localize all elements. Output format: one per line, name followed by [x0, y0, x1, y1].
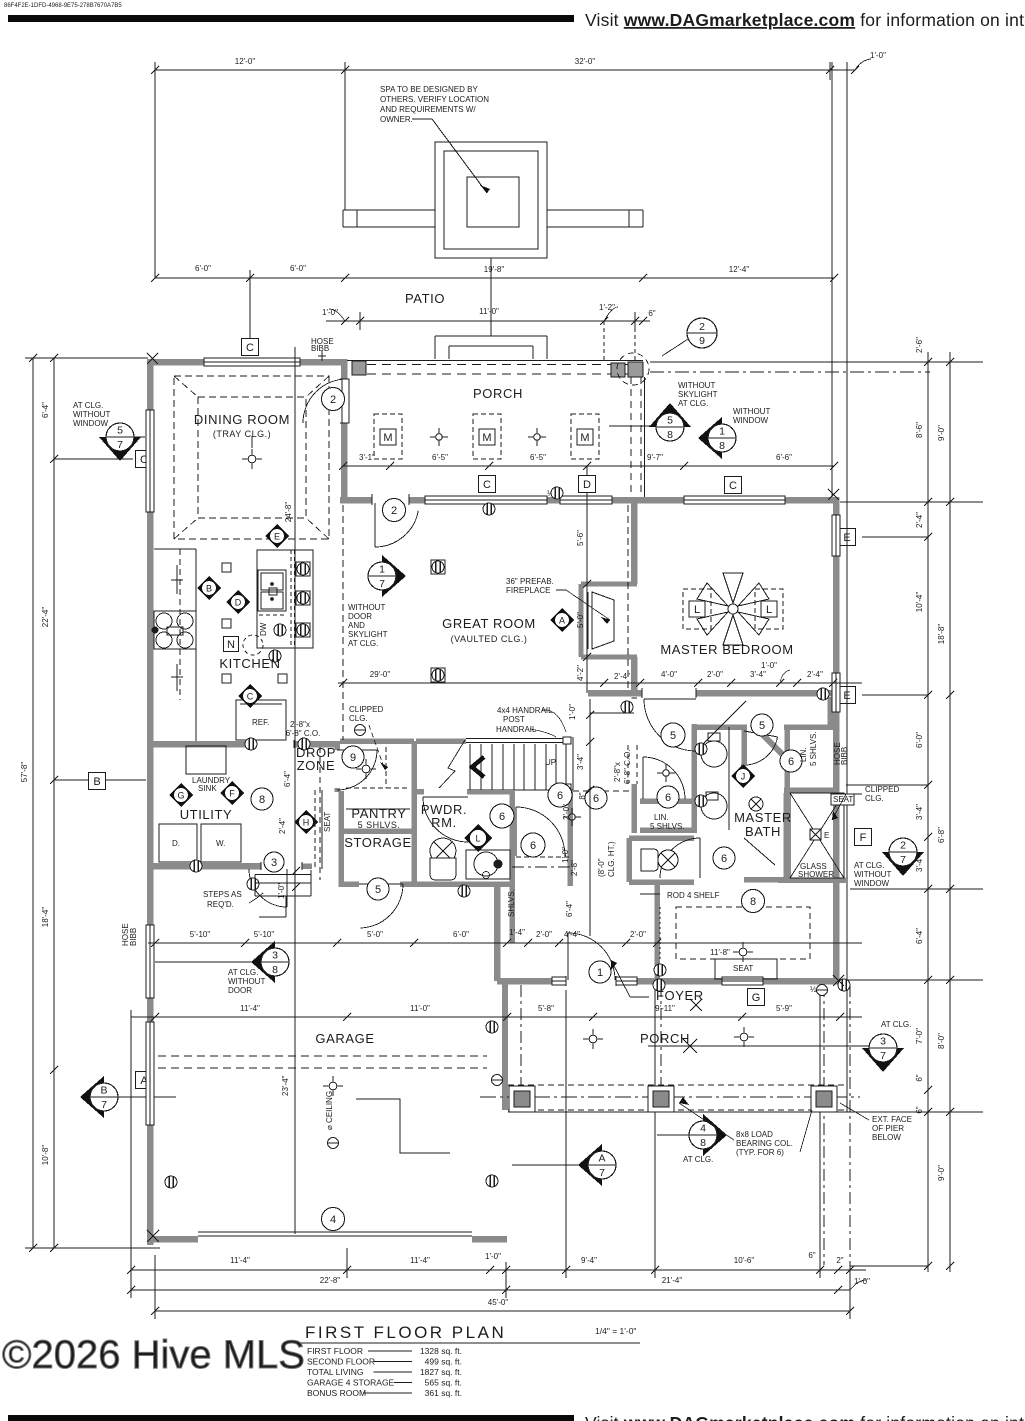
svg-text:DOOR: DOOR [228, 986, 252, 995]
svg-text:6'-4": 6'-4" [915, 928, 924, 944]
svg-text:3'-4": 3'-4" [576, 754, 585, 770]
svg-text:D: D [235, 598, 242, 608]
master linen closet [784, 724, 834, 730]
svg-text:CLIPPED: CLIPPED [865, 785, 899, 794]
windows foyer front [552, 977, 575, 986]
door 2 great room [374, 503, 376, 547]
kitchen symbols [197, 576, 221, 600]
M box dashed master [571, 414, 599, 459]
svg-text:2: 2 [330, 394, 336, 406]
stair side rails [510, 789, 573, 791]
window dining top C [204, 358, 300, 367]
svg-text:11'-4": 11'-4" [230, 1256, 250, 1265]
svg-text:2'-4": 2'-4" [807, 670, 823, 679]
dining top wall [147, 359, 347, 366]
door utility [337, 749, 377, 751]
clipped clg dashed pwdr [319, 747, 321, 880]
dining fan [251, 436, 253, 448]
svg-text:4'-4": 4'-4" [564, 930, 580, 939]
svg-text:WINDOW: WINDOW [73, 419, 109, 428]
svg-text:12'-4": 12'-4" [729, 265, 750, 274]
utility door opening [334, 750, 341, 788]
svg-text:Visit www.DAGmarketplace.com f: Visit www.DAGmarketplace.com for informa… [585, 1413, 1025, 1421]
pwdr walls [416, 789, 510, 795]
svg-text:1'-0": 1'-0" [568, 704, 577, 720]
svg-text:11'-0": 11'-0" [410, 1004, 430, 1013]
svg-text:10'-8": 10'-8" [41, 1145, 50, 1166]
foyer closet walls [509, 791, 515, 943]
seat box [715, 959, 777, 979]
svg-text:M: M [580, 432, 589, 444]
svg-text:19'-8": 19'-8" [484, 265, 505, 274]
svg-text:2'-4": 2'-4" [614, 672, 630, 681]
svg-text:2'-8": 2'-8" [570, 860, 579, 876]
window utility left [146, 925, 155, 998]
corner marks [147, 1230, 159, 1242]
svg-text:BIBB: BIBB [311, 344, 329, 353]
svg-text:HANDRAIL: HANDRAIL [496, 725, 537, 734]
svg-text:2'-8"x: 2'-8"x [613, 762, 622, 782]
great room top wall [340, 497, 839, 504]
svg-text:BIBB: BIBB [129, 928, 138, 946]
svg-text:C: C [729, 480, 737, 492]
svg-text:5: 5 [117, 425, 123, 437]
closet door [515, 807, 517, 856]
svg-text:6'-6": 6'-6" [776, 453, 792, 462]
door closet diag leaf [700, 701, 746, 747]
fan cross light [749, 797, 763, 811]
svg-text:6'-4": 6'-4" [283, 771, 292, 787]
svg-text:6'-5": 6'-5" [530, 453, 546, 462]
kitchen small boxes [222, 563, 231, 572]
master closet rod&shelf dashed [676, 907, 810, 959]
svg-text:STORAGE: STORAGE [344, 835, 412, 850]
svg-text:8: 8 [667, 429, 673, 441]
svg-text:PATIO: PATIO [405, 291, 445, 306]
svg-text:29'-0": 29'-0" [370, 670, 391, 679]
pantry/storage walls [341, 828, 414, 834]
svg-text:D: D [583, 479, 591, 491]
svg-text:B: B [93, 776, 100, 788]
svg-text:POST: POST [503, 715, 525, 724]
svg-text:CLG.: CLG. [349, 714, 368, 723]
svg-text:UP: UP [545, 758, 556, 767]
svg-text:9'-0": 9'-0" [937, 425, 946, 441]
svg-text:6'-0": 6'-0" [453, 930, 469, 939]
svg-text:9'-0": 9'-0" [937, 1165, 946, 1181]
svg-text:6'-8" C.O.: 6'-8" C.O. [623, 749, 632, 784]
3/8 cut [155, 961, 261, 963]
svg-text:7: 7 [599, 1167, 605, 1179]
svg-text:6'-4": 6'-4" [41, 402, 50, 418]
svg-text:21'-4": 21'-4" [662, 1276, 683, 1285]
vanity sinks [728, 727, 730, 830]
svg-text:6": 6" [915, 1106, 924, 1113]
door utility lower [286, 869, 288, 907]
svg-text:8: 8 [719, 440, 725, 452]
svg-text:C: C [247, 692, 254, 702]
svg-text:2'-4": 2'-4" [278, 818, 287, 834]
svg-text:OWNER.: OWNER. [380, 115, 413, 124]
svg-text:WITHOUT: WITHOUT [733, 407, 770, 416]
svg-text:6: 6 [593, 793, 599, 805]
shower interior X [790, 793, 844, 878]
bottom dim row 2: 22-8 / 21-4 / 1-0 [131, 1289, 850, 1291]
svg-text:3: 3 [272, 950, 278, 962]
svg-text:2'-8"x: 2'-8"x [290, 720, 310, 729]
A datum left [118, 1096, 176, 1098]
svg-text:12'-0": 12'-0" [235, 57, 256, 66]
svg-text:8: 8 [750, 896, 756, 908]
svg-text:5: 5 [759, 720, 765, 732]
svg-text:1: 1 [719, 426, 725, 438]
svg-text:5'-0": 5'-0" [367, 930, 383, 939]
svg-text:9'-11": 9'-11" [655, 1004, 675, 1013]
svg-text:H: H [303, 818, 310, 828]
svg-text:WITHOUT: WITHOUT [348, 603, 385, 612]
wc toilets [731, 764, 755, 788]
right dim vertical lines [927, 352, 929, 1272]
svg-text:5: 5 [670, 730, 676, 742]
ceiling fan [697, 583, 728, 606]
svg-text:GREAT ROOM: GREAT ROOM [442, 616, 536, 631]
svg-text:(TRAY CLG.): (TRAY CLG.) [213, 429, 271, 439]
svg-text:Visit www.DAGmarketplace.com f: Visit www.DAGmarketplace.com for informa… [585, 10, 1025, 30]
porch dim row y466 [343, 465, 834, 467]
svg-text:C: C [246, 342, 254, 354]
svg-text:STEPS AS: STEPS AS [203, 890, 242, 899]
svg-text:10'-6": 10'-6" [734, 1256, 755, 1265]
utility bottom wall [147, 863, 261, 870]
svg-text:G: G [177, 791, 184, 801]
svg-text:2'-0": 2'-0" [707, 670, 723, 679]
window dining left [146, 410, 155, 512]
svg-text:AT CLG.: AT CLG. [881, 1020, 911, 1029]
pwdr toilet [430, 838, 456, 864]
svg-text:6: 6 [788, 756, 794, 768]
drop zone top wall [340, 738, 414, 744]
svg-text:6": 6" [648, 309, 655, 318]
svg-text:BEARING COL.: BEARING COL. [736, 1139, 793, 1148]
patio upper band walls [343, 209, 435, 211]
stair direction arrow [472, 757, 484, 777]
svg-text:WITHOUT: WITHOUT [73, 410, 110, 419]
svg-text:6'-5": 6'-5" [432, 453, 448, 462]
utility east wall [334, 744, 340, 792]
door shower [744, 838, 775, 865]
svg-text:OF PIER: OF PIER [872, 1124, 904, 1133]
svg-text:6: 6 [721, 853, 727, 865]
porch post top left [352, 361, 366, 375]
svg-text:5'-6": 5'-6" [576, 530, 585, 546]
svg-text:WITHOUT: WITHOUT [854, 870, 891, 879]
garage sconces [486, 1021, 498, 1033]
svg-text:11'-4": 11'-4" [410, 1256, 430, 1265]
svg-text:5 SHLVS.: 5 SHLVS. [650, 822, 685, 831]
svg-text:FIREPLACE: FIREPLACE [506, 586, 550, 595]
svg-text:F: F [229, 789, 235, 799]
svg-text:6: 6 [499, 811, 505, 823]
svg-text:GARAGE: GARAGE [315, 1031, 374, 1046]
svg-text:L: L [766, 604, 772, 616]
windows master right E E [832, 515, 841, 556]
cooktop burners [154, 611, 196, 649]
svg-text:BIBB: BIBB [840, 747, 849, 765]
svg-text:REQ'D.: REQ'D. [207, 900, 234, 909]
svg-text:8x8 LOAD: 8x8 LOAD [736, 1130, 773, 1139]
svg-text:7: 7 [117, 439, 123, 451]
L boxes [683, 589, 711, 629]
svg-text:57'-8": 57'-8" [20, 762, 29, 783]
svg-text:A: A [598, 1153, 605, 1165]
pier face line right [846, 62, 848, 1112]
pier verticals dash-dot [520, 985, 522, 1090]
pier 3 [811, 1086, 837, 1112]
svg-text:3'-4": 3'-4" [750, 670, 766, 679]
svg-text:7: 7 [900, 854, 906, 866]
svg-text:©2026 Hive MLS: ©2026 Hive MLS [2, 1333, 305, 1377]
svg-text:2'-0": 2'-0" [630, 930, 646, 939]
svg-text:2'-0": 2'-0" [536, 930, 552, 939]
svg-text:8'-6": 8'-6" [915, 422, 924, 438]
dimension 19-8 / 12-4 at y278 [345, 277, 834, 279]
great room vault dashed [342, 505, 344, 740]
svg-text:CLIPPED: CLIPPED [349, 705, 383, 714]
svg-text:2: 2 [391, 505, 397, 517]
svg-text:11'-0": 11'-0" [479, 307, 499, 316]
svg-text:LIN.: LIN. [799, 747, 808, 762]
laundry sink [186, 746, 226, 774]
bottom dim row 3: 45-0 [155, 1310, 850, 1312]
svg-text:ZONE: ZONE [297, 758, 336, 773]
svg-text:499 sq. ft.: 499 sq. ft. [425, 1357, 462, 1367]
svg-text:PORCH: PORCH [473, 386, 523, 401]
svg-text:22'-8": 22'-8" [320, 1276, 341, 1285]
svg-text:AT CLG.: AT CLG. [683, 1155, 713, 1164]
svg-text:5'-8": 5'-8" [538, 1004, 554, 1013]
svg-text:8": 8" [578, 792, 587, 799]
kitchen counters left [195, 549, 197, 741]
svg-text:8: 8 [259, 794, 265, 806]
svg-text:AT CLG.: AT CLG. [348, 639, 378, 648]
svg-text:E: E [824, 831, 829, 840]
right extension lines [650, 361, 983, 363]
front wall (foyer bottom) [497, 978, 839, 985]
handrail posts [563, 737, 571, 744]
svg-text:1'-0": 1'-0" [854, 1277, 870, 1286]
toilet room walls [629, 835, 694, 841]
svg-text:FIRST FLOOR PLAN: FIRST FLOOR PLAN [305, 1323, 506, 1342]
svg-text:11'-4": 11'-4" [240, 1004, 260, 1013]
porch left wall [502, 981, 508, 1110]
bottom dim row 1: 11-4 / 11-4 / 1-0 and 9-4 / 10-6 / 6 / 2 [131, 1269, 506, 1271]
windows great room C D [425, 496, 547, 505]
master interior dim row y683 [338, 682, 862, 684]
svg-text:M: M [383, 432, 392, 444]
bottom visit text partial [8, 1415, 574, 1421]
svg-text:2: 2 [699, 321, 705, 333]
svg-text:6'-0": 6'-0" [195, 264, 211, 273]
svg-text:SHOWER: SHOWER [798, 870, 834, 879]
svg-text:10'-4": 10'-4" [915, 592, 924, 613]
svg-text:1'-0": 1'-0" [761, 661, 777, 670]
clipped clg dashed hall [553, 790, 633, 792]
svg-text:9: 9 [699, 335, 705, 347]
svg-text:9'-7": 9'-7" [647, 453, 663, 462]
svg-text:WITHOUT: WITHOUT [228, 977, 265, 986]
svg-text:RM.: RM. [431, 815, 457, 830]
svg-text:DINING ROOM: DINING ROOM [194, 412, 290, 427]
svg-text:D.: D. [172, 839, 180, 848]
svg-text:1'-4": 1'-4" [509, 928, 525, 937]
svg-text:3'-1": 3'-1" [359, 453, 375, 462]
door 2 dining east [342, 379, 349, 423]
porch posts top right pair [611, 363, 625, 377]
svg-text:1'-0": 1'-0" [485, 1252, 501, 1261]
porch pier dashed lines [508, 1084, 846, 1086]
svg-text:565 sq. ft.: 565 sq. ft. [425, 1378, 462, 1388]
svg-text:AND: AND [348, 621, 365, 630]
svg-text:6'-0": 6'-0" [290, 264, 306, 273]
dimension line top 12-0 / 32-0 / 1-0 [155, 69, 855, 71]
door storage [359, 883, 403, 885]
svg-text:9'-4": 9'-4" [581, 1256, 597, 1265]
svg-text:6'-4": 6'-4" [565, 901, 574, 917]
svg-text:5'-10": 5'-10" [254, 930, 275, 939]
svg-text:J: J [741, 772, 746, 782]
hall light 6 [548, 783, 572, 807]
svg-text:23'-4": 23'-4" [281, 1075, 290, 1096]
left dim vertical lines [32, 358, 34, 1248]
door pwdr [423, 796, 468, 798]
hall closet dashes [516, 856, 570, 858]
master bottom wall [588, 690, 839, 697]
pantry east wall [411, 741, 417, 887]
svg-text:6: 6 [557, 790, 563, 802]
svg-text:32'-0": 32'-0" [575, 57, 596, 66]
svg-text:LIN.: LIN. [654, 813, 669, 822]
svg-text:24'-8": 24'-8" [284, 502, 293, 523]
svg-text:4'-0": 4'-0" [661, 670, 677, 679]
svg-text:BELOW: BELOW [872, 1133, 901, 1142]
svg-text:AT CLG.: AT CLG. [678, 399, 708, 408]
door wc [744, 731, 778, 737]
svg-text:4: 4 [700, 1123, 706, 1135]
svg-text:2": 2" [836, 1256, 843, 1265]
svg-text:6'-0": 6'-0" [915, 732, 924, 748]
svg-text:4: 4 [330, 1214, 336, 1226]
svg-text:BATH: BATH [745, 824, 781, 839]
svg-text:MASTER: MASTER [734, 810, 792, 825]
pier 1 [509, 1086, 535, 1112]
svg-text:C: C [483, 479, 491, 491]
svg-text:1'-0": 1'-0" [561, 847, 570, 863]
porch slab edge [508, 1111, 846, 1113]
door master bath entry 5 [644, 698, 696, 700]
svg-text:3: 3 [271, 857, 277, 869]
door toilet rm [699, 838, 701, 878]
svg-text:22'-4": 22'-4" [41, 607, 50, 628]
svg-text:M: M [482, 432, 491, 444]
svg-text:A: A [559, 616, 565, 626]
svg-text:5 SHLVS.: 5 SHLVS. [809, 731, 818, 766]
svg-text:AT CLG.: AT CLG. [854, 861, 884, 870]
window master C [684, 496, 785, 505]
svg-text:PORCH: PORCH [640, 1031, 690, 1046]
svg-text:2'-0": 2'-0" [562, 804, 571, 820]
garage right wall [494, 884, 501, 981]
svg-text:18'-8": 18'-8" [937, 624, 946, 645]
garage ceiling dashed [158, 1055, 487, 1057]
svg-text:7: 7 [101, 1099, 107, 1111]
svg-text:1/4" = 1'-0": 1/4" = 1'-0" [595, 1326, 636, 1336]
fridge [236, 700, 286, 740]
svg-text:86F4F2E-1DFD-4968-9E75-278B767: 86F4F2E-1DFD-4968-9E75-278B7670A7B5 [4, 3, 122, 9]
B datum left [54, 779, 146, 781]
svg-text:OTHERS. VERIFY LOCATION: OTHERS. VERIFY LOCATION [380, 95, 489, 104]
svg-text:6": 6" [808, 1251, 815, 1260]
svg-text:5: 5 [375, 884, 381, 896]
svg-text:SPA TO BE DESIGNED BY: SPA TO BE DESIGNED BY [380, 85, 478, 94]
svg-text:3'-4": 3'-4" [915, 804, 924, 820]
island range [258, 570, 286, 611]
svg-text:361 sq. ft.: 361 sq. ft. [425, 1388, 462, 1398]
svg-text:BONUS ROOM: BONUS ROOM [307, 1388, 366, 1398]
svg-text:8'-0": 8'-0" [937, 1033, 946, 1049]
svg-text:7: 7 [379, 578, 385, 590]
spa nested squares [435, 142, 547, 258]
svg-text:⌀ CEILING: ⌀ CEILING [325, 1091, 334, 1130]
svg-text:(8'-0": (8'-0" [597, 858, 606, 877]
island [257, 550, 313, 648]
svg-text:UTILITY: UTILITY [180, 807, 233, 822]
svg-text:8: 8 [272, 964, 278, 976]
garage bottom wall [147, 1236, 198, 1243]
bench dashed [314, 790, 316, 869]
svg-text:CLG. HT.): CLG. HT.) [607, 841, 616, 877]
pier 2 [648, 1086, 674, 1112]
svg-text:7'-0": 7'-0" [915, 1028, 924, 1044]
stairs top wall [416, 738, 466, 744]
svg-text:WINDOW: WINDOW [733, 416, 769, 425]
fireplace [579, 584, 584, 657]
svg-text:WINDOW: WINDOW [854, 879, 890, 888]
svg-text:3: 3 [880, 1036, 886, 1048]
svg-text:1: 1 [597, 967, 603, 979]
master right wall [833, 497, 840, 984]
svg-text:TOTAL LIVING: TOTAL LIVING [307, 1367, 364, 1377]
shower walls [783, 793, 789, 880]
svg-text:FOYER: FOYER [656, 988, 704, 1003]
svg-text:9: 9 [350, 752, 356, 764]
svg-text:45'-0": 45'-0" [488, 1298, 509, 1307]
bonus stair outline [356, 1099, 450, 1153]
svg-text:SEAT: SEAT [733, 964, 753, 973]
svg-text:MASTER BEDROOM: MASTER BEDROOM [660, 642, 793, 657]
patio step outline [435, 335, 547, 337]
pwdr sink vanity [466, 850, 510, 879]
master closet west wall [654, 884, 660, 981]
svg-text:36" PREFAB.: 36" PREFAB. [506, 577, 554, 586]
svg-text:11'-8": 11'-8" [710, 948, 730, 957]
svg-text:(TYP. FOR 6): (TYP. FOR 6) [736, 1148, 784, 1157]
dimension line 6-0 6-0 at y278 [155, 277, 345, 279]
svg-text:(VAULTED CLG.): (VAULTED CLG.) [451, 634, 528, 644]
svg-text:GARAGE 4 STORAGE: GARAGE 4 STORAGE [307, 1378, 395, 1388]
svg-text:EXT. FACE: EXT. FACE [872, 1115, 912, 1124]
svg-text:5'-9": 5'-9" [776, 1004, 792, 1013]
toilet room fixture [641, 849, 658, 871]
